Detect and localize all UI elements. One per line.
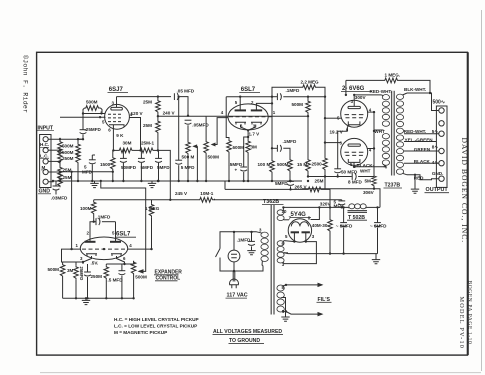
6V6 upper plate bar	[348, 106, 360, 108]
T362B HV center tap	[283, 252, 288, 254]
5Y4G plate left	[291, 231, 299, 233]
svg-text:RED: RED	[414, 176, 424, 181]
6V6 upper plate lead	[353, 95, 355, 107]
svg-text:+: +	[235, 168, 238, 173]
ground symbol expander	[85, 298, 87, 300]
choke T502B	[349, 204, 366, 209]
wire to right plate pin	[115, 222, 117, 238]
svg-text:25M-1: 25M-1	[141, 141, 154, 146]
6SL7 plate bar left	[235, 109, 246, 111]
svg-text:.1MFD: .1MFD	[283, 139, 297, 144]
expander plate bar left	[85, 241, 96, 243]
6SL7 cathode left	[235, 122, 246, 124]
wire L.C. jack to divider	[48, 149, 60, 151]
capacitor 5MFD screen bypass	[287, 181, 294, 185]
svg-text:5M: 5M	[365, 178, 372, 183]
svg-text:1 MEG.: 1 MEG.	[385, 73, 401, 78]
svg-text:500M: 500M	[208, 154, 220, 159]
output terminal GND	[439, 176, 444, 181]
T237B secondary winding	[396, 94, 403, 174]
wire screen line to 245V feed	[158, 150, 170, 199]
svg-text:500M: 500M	[62, 144, 74, 149]
grid coupling node column x=83	[82, 114, 84, 130]
svg-text:500M: 500M	[48, 267, 60, 272]
wire BLACK-WHT lower plate to OPT	[354, 167, 386, 169]
wire RED-WHT tap	[404, 133, 439, 135]
output labels	[330, 73, 446, 195]
svg-text:9 K: 9 K	[116, 133, 124, 138]
wire YEL-GREEN tap	[404, 141, 436, 143]
svg-text:BLACK: BLACK	[414, 159, 431, 164]
svg-text:250M: 250M	[62, 156, 74, 161]
6V6 upper cathode lead pin 8	[347, 125, 349, 132]
svg-text:H.C. = HIGH LEVEL CRYSTAL P: H.C. = HIGH LEVEL CRYSTAL PICKUP	[114, 317, 199, 322]
svg-text:L.C. = LOW LEVEL CRYSTAL PI: L.C. = LOW LEVEL CRYSTAL PICKUP	[114, 323, 197, 328]
wire grid feed column x=325	[324, 97, 326, 157]
wire upper cathode to 50MFD	[338, 131, 348, 168]
resistor 25M-1	[139, 148, 155, 153]
svg-text:6SL7: 6SL7	[241, 87, 256, 93]
svg-text:MFD: MFD	[82, 170, 93, 175]
svg-text:15 M: 15 M	[297, 162, 307, 167]
capacitor 25MFD expander	[87, 264, 89, 272]
capacitor 5MFD (a)	[140, 150, 142, 158]
wire rail jog to expander pot	[101, 181, 146, 249]
power switch	[216, 249, 221, 258]
resistor 500M (mid)	[288, 159, 293, 173]
svg-text:50MFD: 50MFD	[121, 165, 137, 170]
6V6 lower screen stub pin 4	[368, 148, 375, 150]
ground symbol main rail mid	[151, 181, 153, 183]
resistor 25M (first)	[156, 100, 161, 114]
capacitor .1MFD expander	[94, 221, 96, 223]
wire grid pin1 stub	[268, 116, 272, 118]
6SJ7 plate bar	[111, 107, 123, 110]
resistor 1 MEG. feedback	[346, 80, 384, 95]
resistor 10M-1	[199, 197, 215, 202]
pot wiper arrow (volume) from 6SL7 grid	[212, 118, 228, 145]
svg-text:WHT: WHT	[360, 169, 371, 174]
svg-text:M = MAGNETIC PICKUP: M = MAGNETIC PICKUP	[114, 330, 167, 335]
wire plate supply drop to 600M	[226, 97, 229, 140]
expander plate leads	[90, 237, 116, 242]
rectifier tube 5Y4G envelope	[288, 219, 311, 242]
capacitor 8MFD output	[377, 207, 379, 222]
wire 245V line	[94, 199, 199, 201]
resistor 25M (second)	[156, 120, 161, 134]
svg-text:.05 MFD: .05 MFD	[177, 88, 195, 93]
potentiometer 500 M (tone)	[186, 141, 191, 155]
svg-text:500M: 500M	[135, 275, 147, 280]
page edge shadow bottom	[40, 372, 481, 374]
input + 6SJ7 labels	[37, 88, 219, 200]
wire chain junction to 1500 bottom	[60, 171, 113, 173]
power transformer T362B core	[270, 205, 272, 315]
svg-text:MODEL PV-10: MODEL PV-10	[458, 297, 465, 350]
capacitor .05MFD (tone, x=188)	[185, 120, 192, 124]
svg-text:4∿: 4∿	[432, 160, 439, 165]
input jack terminal 5 (GND)	[43, 179, 48, 184]
wire 265V screen line	[225, 181, 307, 189]
svg-text:2.2 MEG: 2.2 MEG	[301, 79, 320, 84]
expander labels	[48, 206, 160, 283]
svg-text:600M: 600M	[233, 145, 245, 150]
svg-text:GREEN: GREEN	[414, 147, 431, 152]
svg-text:.5 MFD: .5 MFD	[108, 278, 124, 283]
6SL7 labels	[175, 79, 324, 196]
svg-text:1500: 1500	[100, 162, 111, 167]
resistor 500M (6SJ7 grid)	[83, 108, 85, 114]
resistor 100 M	[271, 148, 273, 159]
wire filament right pin 8 to B+	[311, 207, 320, 219]
svg-text:500∿: 500∿	[433, 100, 446, 106]
5Y4G filament	[291, 222, 308, 227]
capacitor .1MFD line bypass	[251, 232, 253, 241]
svg-text:BOGEN PA PAGE 1-10: BOGEN PA PAGE 1-10	[466, 281, 472, 345]
page border frame	[37, 52, 468, 355]
svg-text:.1MFD: .1MFD	[286, 88, 300, 93]
tube 6SL7 envelope	[228, 104, 268, 130]
T237B primary center tap WHT	[374, 129, 384, 131]
svg-text:2- 6V6G: 2- 6V6G	[342, 86, 365, 92]
6V6 upper grid dashes	[345, 115, 364, 118]
svg-text:5MFD: 5MFD	[275, 181, 288, 186]
svg-text:245 V: 245 V	[175, 191, 188, 196]
expander plate bar right	[110, 241, 121, 243]
resistor 250M expander	[105, 264, 107, 266]
wire filament supply bottom arrow	[286, 312, 322, 315]
svg-text:250M: 250M	[91, 274, 103, 279]
T362B filament 6.3V winding	[277, 285, 284, 312]
svg-text:.5V.: .5V.	[91, 261, 99, 266]
wire 6SJ7 grid line	[83, 113, 105, 115]
svg-text:6SJ7: 6SJ7	[109, 87, 124, 93]
svg-text:TO GROUND: TO GROUND	[229, 338, 260, 344]
expander bottom rail	[63, 297, 134, 299]
pot wiper arrow (tone)	[194, 146, 198, 181]
wire right column x=272	[271, 97, 273, 149]
capacitor .5MFD cathode bypass	[244, 137, 248, 167]
6SJ7 cathode lead pin 6	[112, 125, 114, 151]
wire M-input feed to expander grid	[71, 172, 73, 249]
capacitor 5MFD (b)	[158, 150, 160, 158]
6SL7 cathode leads join	[241, 125, 256, 138]
AC primary circuit loop	[220, 232, 263, 271]
capacitor 5 MFD (input cathode)	[91, 155, 93, 160]
resistor 1500	[112, 150, 114, 156]
expander cathode left	[86, 254, 97, 256]
6V6 upper grid stub pin 5	[325, 117, 341, 119]
6V6 lower cathode lead pin 5	[353, 162, 355, 166]
resistor 500M (6V6 grid leak)	[307, 97, 309, 100]
wire 320V B+ line	[283, 207, 348, 209]
svg-text:25M: 25M	[63, 167, 72, 172]
svg-text:5 MFD: 5 MFD	[181, 165, 195, 170]
svg-text:306V: 306V	[363, 190, 375, 195]
legend text pickups	[114, 317, 199, 335]
wire HV top to left plate	[284, 241, 294, 242]
svg-text:5∿: 5∿	[432, 129, 439, 134]
wire BLK-WHT secondary top to terminal 1	[407, 93, 439, 111]
svg-text:5MFD: 5MFD	[157, 165, 170, 170]
svg-text:320V: 320V	[320, 201, 332, 206]
capacitor 5 MFD (plate decoupling)	[178, 97, 180, 161]
svg-text:.05MFD: .05MFD	[192, 123, 209, 128]
5Y4G plate leads	[294, 232, 305, 241]
wire M jack to divider	[48, 171, 60, 173]
svg-text:500M: 500M	[62, 150, 74, 155]
svg-text:©John F. Rider: ©John F. Rider	[22, 55, 30, 113]
resistor 30M	[118, 148, 134, 153]
tube 6SJ7 envelope	[105, 104, 130, 129]
output terminal b	[439, 121, 444, 126]
wire screen bank line y=150.4	[113, 149, 118, 151]
6SL7 plate bar right	[251, 109, 262, 111]
tube 6V6 upper envelope	[341, 100, 368, 127]
power supply labels	[237, 200, 388, 243]
6SJ7 cathode	[109, 125, 124, 127]
resistor 100M expander feed	[93, 200, 95, 201]
input jack box	[40, 135, 51, 188]
T237B primary winding	[382, 95, 389, 166]
svg-text:DAVID BOGEN CO., INC.: DAVID BOGEN CO., INC.	[460, 138, 469, 244]
svg-text:100 M: 100 M	[258, 162, 271, 167]
expander grid right lead pin 4	[128, 248, 152, 250]
resistor 600M	[227, 140, 232, 154]
resistor 40M-30 bleeder	[329, 207, 331, 218]
svg-text:500M: 500M	[277, 162, 289, 167]
capacitor .1MFD top coupling	[272, 96, 277, 98]
output terminal 4	[439, 161, 444, 166]
svg-text:M: M	[42, 165, 46, 170]
input jack terminal 2 (L.C.)	[43, 148, 48, 153]
6SJ7 grid dashes	[108, 114, 121, 121]
input jack terminal 3	[43, 159, 48, 164]
capacitor 8MFD bridge	[341, 200, 343, 201]
wire cathode bias line	[308, 176, 352, 178]
svg-text:240 V: 240 V	[163, 111, 176, 116]
potentiometer 500M expander control	[133, 261, 135, 264]
svg-text:YEL.-GREEN: YEL.-GREEN	[405, 137, 434, 142]
junction dots expander	[93, 221, 95, 223]
svg-text:50 MFD: 50 MFD	[341, 169, 358, 174]
capacitor 8 MFD cathode (series)	[352, 173, 356, 180]
junction dots 6SL7 area	[239, 96, 241, 98]
svg-text:25M: 25M	[143, 123, 152, 128]
expander cathode leads	[83, 256, 125, 264]
capacitor .25MFD	[80, 130, 87, 134]
wire 306V line	[302, 188, 374, 190]
svg-text:5MFD: 5MFD	[141, 165, 154, 170]
wire GREEN tap	[404, 150, 439, 152]
svg-text:BLACK-: BLACK-	[357, 163, 375, 168]
wire expander pot drop	[139, 249, 146, 271]
output terminal 5	[439, 131, 444, 136]
svg-text:RED-WHT.: RED-WHT.	[404, 129, 426, 134]
svg-text:.5MFD: .5MFD	[229, 162, 243, 167]
svg-text:30M: 30M	[123, 141, 132, 146]
svg-text:1.7 V: 1.7 V	[249, 131, 261, 136]
junction dots input area	[59, 138, 61, 140]
resistor 500M expander left	[62, 262, 64, 264]
wire BLACK tap	[404, 162, 439, 164]
svg-text:3M: 3M	[251, 145, 258, 150]
6SL7 plate lead pin 2	[256, 103, 272, 110]
junction dots power supply	[233, 231, 235, 233]
svg-text:.03MFD: .03MFD	[51, 195, 68, 200]
svg-text:WHT: WHT	[374, 129, 385, 134]
svg-text:25M: 25M	[63, 175, 72, 180]
AC plug 117VAC	[230, 279, 239, 288]
wire PS ground rail	[284, 252, 378, 255]
note ALL VOLTAGES MEASURED TO GROUND	[213, 329, 284, 344]
page edge shadow right	[481, 10, 483, 371]
svg-text:8 MFD: 8 MFD	[348, 180, 362, 185]
resistor 15 M	[307, 116, 309, 158]
svg-text:GND.: GND.	[432, 171, 443, 176]
6SJ7 screen lead pin 4	[129, 118, 140, 151]
wire RED secondary bottom	[407, 175, 439, 180]
ground symbol line bypass	[247, 251, 255, 255]
resistor 3M expander	[75, 262, 77, 266]
output terminal 8	[439, 148, 444, 153]
tube 6SL7 expander envelope	[80, 237, 127, 260]
svg-text:25MFD: 25MFD	[79, 267, 84, 281]
AC receptacle	[228, 250, 240, 262]
6SL7 grid dash line	[229, 116, 266, 118]
svg-text:120 V: 120 V	[131, 111, 144, 116]
svg-text:.25MFD: .25MFD	[85, 127, 102, 132]
capacitor .05 MFD coupling	[174, 93, 178, 100]
ground symbol main rail left	[94, 181, 96, 183]
6V6 lower grid stub pin 3	[325, 142, 341, 144]
6V6 upper cathode bracket	[348, 121, 360, 124]
wire plate RED-WHT to OPT	[354, 94, 381, 96]
capacitor 8MFD input	[343, 207, 345, 222]
wire HV bottom to right plate	[284, 242, 316, 264]
wire jack3 to divider	[48, 160, 60, 162]
6SL7 cathode right	[251, 122, 262, 124]
output terminal box	[436, 106, 447, 187]
svg-text:2500: 2500	[312, 161, 323, 166]
T362B primary winding	[261, 232, 268, 261]
wire 240V line	[158, 115, 206, 117]
svg-text:25M: 25M	[315, 179, 324, 184]
expander grid left lead pin 1	[62, 249, 81, 262]
svg-text:.1MFD: .1MFD	[237, 237, 251, 242]
T362B HV winding	[277, 241, 284, 263]
svg-text:ALL VOLTAGES MEASURED: ALL VOLTAGES MEASURED	[213, 329, 282, 335]
svg-text:H.C.: H.C.	[40, 142, 49, 147]
svg-text:BLK-WHT.: BLK-WHT.	[404, 87, 426, 92]
resistor chain 2 at x=78	[77, 139, 79, 143]
tube 6V6 lower envelope	[341, 138, 368, 165]
svg-text:~ 8MFD: ~ 8MFD	[370, 224, 387, 229]
output terminal 500 ohm	[439, 108, 444, 113]
expander grid dash line	[82, 248, 125, 250]
resistor 2500	[323, 157, 328, 171]
svg-text:500 M: 500 M	[182, 154, 195, 159]
junction dots output area	[345, 94, 347, 96]
svg-text:8∿: 8∿	[432, 144, 439, 149]
svg-text:3M: 3M	[67, 268, 74, 273]
divider chain 500M/500M/250M/25M/25M (vertical at x=60)	[59, 138, 61, 141]
input jack terminal 4 (M)	[43, 169, 48, 174]
wire 6SJ7 cathode-return line to expander	[60, 116, 106, 118]
input jack terminal 1 (H.C.)	[43, 137, 48, 142]
6V6 lower grid dashes	[345, 152, 364, 155]
wire filament left pin 7	[284, 219, 289, 221]
T237B core	[391, 91, 393, 176]
wire to left plate pin	[90, 222, 94, 238]
5Y4G plate right	[302, 231, 310, 233]
svg-text:10M-1: 10M-1	[200, 191, 213, 196]
svg-text:500M: 500M	[292, 102, 304, 107]
wire plate line y=96.6	[117, 96, 172, 98]
svg-text:40M-30: 40M-30	[312, 223, 328, 228]
line cord to plug	[233, 271, 235, 282]
6SL7 plate lead pin 5	[239, 97, 241, 111]
filament center tap ground	[281, 298, 285, 317]
svg-text:300V: 300V	[355, 95, 367, 100]
ground symbol PS	[375, 254, 377, 260]
capacitor .03MFD at input ground	[55, 181, 57, 186]
svg-text:10: 10	[282, 209, 287, 214]
6SJ7 plate lead pin 3	[116, 97, 118, 108]
svg-text:19.2 V: 19.2 V	[330, 129, 344, 134]
resistor 25M screen feed	[307, 187, 323, 192]
svg-text:100M: 100M	[80, 206, 92, 211]
capacitor .5 MFD expander	[121, 264, 123, 271]
6V6 upper screen stub pin 4	[368, 111, 375, 113]
resistor 1 MEG expander	[151, 200, 153, 204]
svg-text:~ 8MFD: ~ 8MFD	[336, 224, 353, 229]
svg-text:500M: 500M	[86, 100, 98, 105]
resistor 3M cathode	[247, 137, 249, 140]
capacitor 50 MFD	[334, 169, 341, 173]
svg-text:.1MFD: .1MFD	[97, 215, 111, 220]
potentiometer 500M (volume)	[205, 116, 207, 140]
capacitor 50MFD	[122, 150, 124, 158]
svg-text:L.C.: L.C.	[40, 154, 49, 159]
capacitor .1MFD interstage mid	[272, 147, 277, 149]
T362B rectifier filament winding	[277, 210, 284, 221]
wire H.C. jack to grid network	[48, 138, 83, 140]
svg-text:MFD: MFD	[334, 203, 345, 208]
wire main ground rail from GND jack	[48, 180, 302, 183]
svg-text:1 MEG: 1 MEG	[145, 206, 160, 211]
6V6 lower cathode bracket	[348, 159, 360, 162]
resistor 5M	[373, 112, 375, 175]
svg-text:RED-WHT.: RED-WHT.	[370, 89, 392, 94]
6V6 lower plate bar	[348, 144, 360, 146]
resistor 2.2 MEG feedback	[272, 87, 325, 97]
svg-text:25M: 25M	[143, 100, 152, 105]
wire 6SL7 plate supply line	[226, 96, 272, 98]
wire filament supply top arrow	[286, 284, 322, 286]
ground symbol output	[414, 175, 416, 189]
expander cathode right	[111, 254, 122, 256]
